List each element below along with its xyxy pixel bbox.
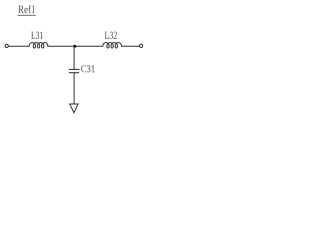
inductor L31 xyxy=(29,43,48,48)
wire L31 to L32 xyxy=(48,45,103,47)
background xyxy=(0,0,149,120)
port P1 (left terminal circle) xyxy=(5,44,8,47)
label L32 xyxy=(105,32,117,39)
junction (node between L31, L32, C31) xyxy=(73,45,76,48)
wire L32 to right port xyxy=(122,45,140,47)
ground xyxy=(70,104,78,113)
inductor L32 xyxy=(103,43,122,48)
port P2 (right terminal circle) xyxy=(140,44,143,47)
underline for Ref1 xyxy=(18,14,36,16)
label L31 xyxy=(31,32,43,39)
label C31 xyxy=(81,65,94,72)
capacitor C31 xyxy=(69,69,79,72)
label Ref1 xyxy=(18,5,35,13)
wire junction down to C31 xyxy=(73,46,75,69)
wire left port to L31 xyxy=(8,45,29,47)
wire C31 to ground xyxy=(73,73,75,104)
